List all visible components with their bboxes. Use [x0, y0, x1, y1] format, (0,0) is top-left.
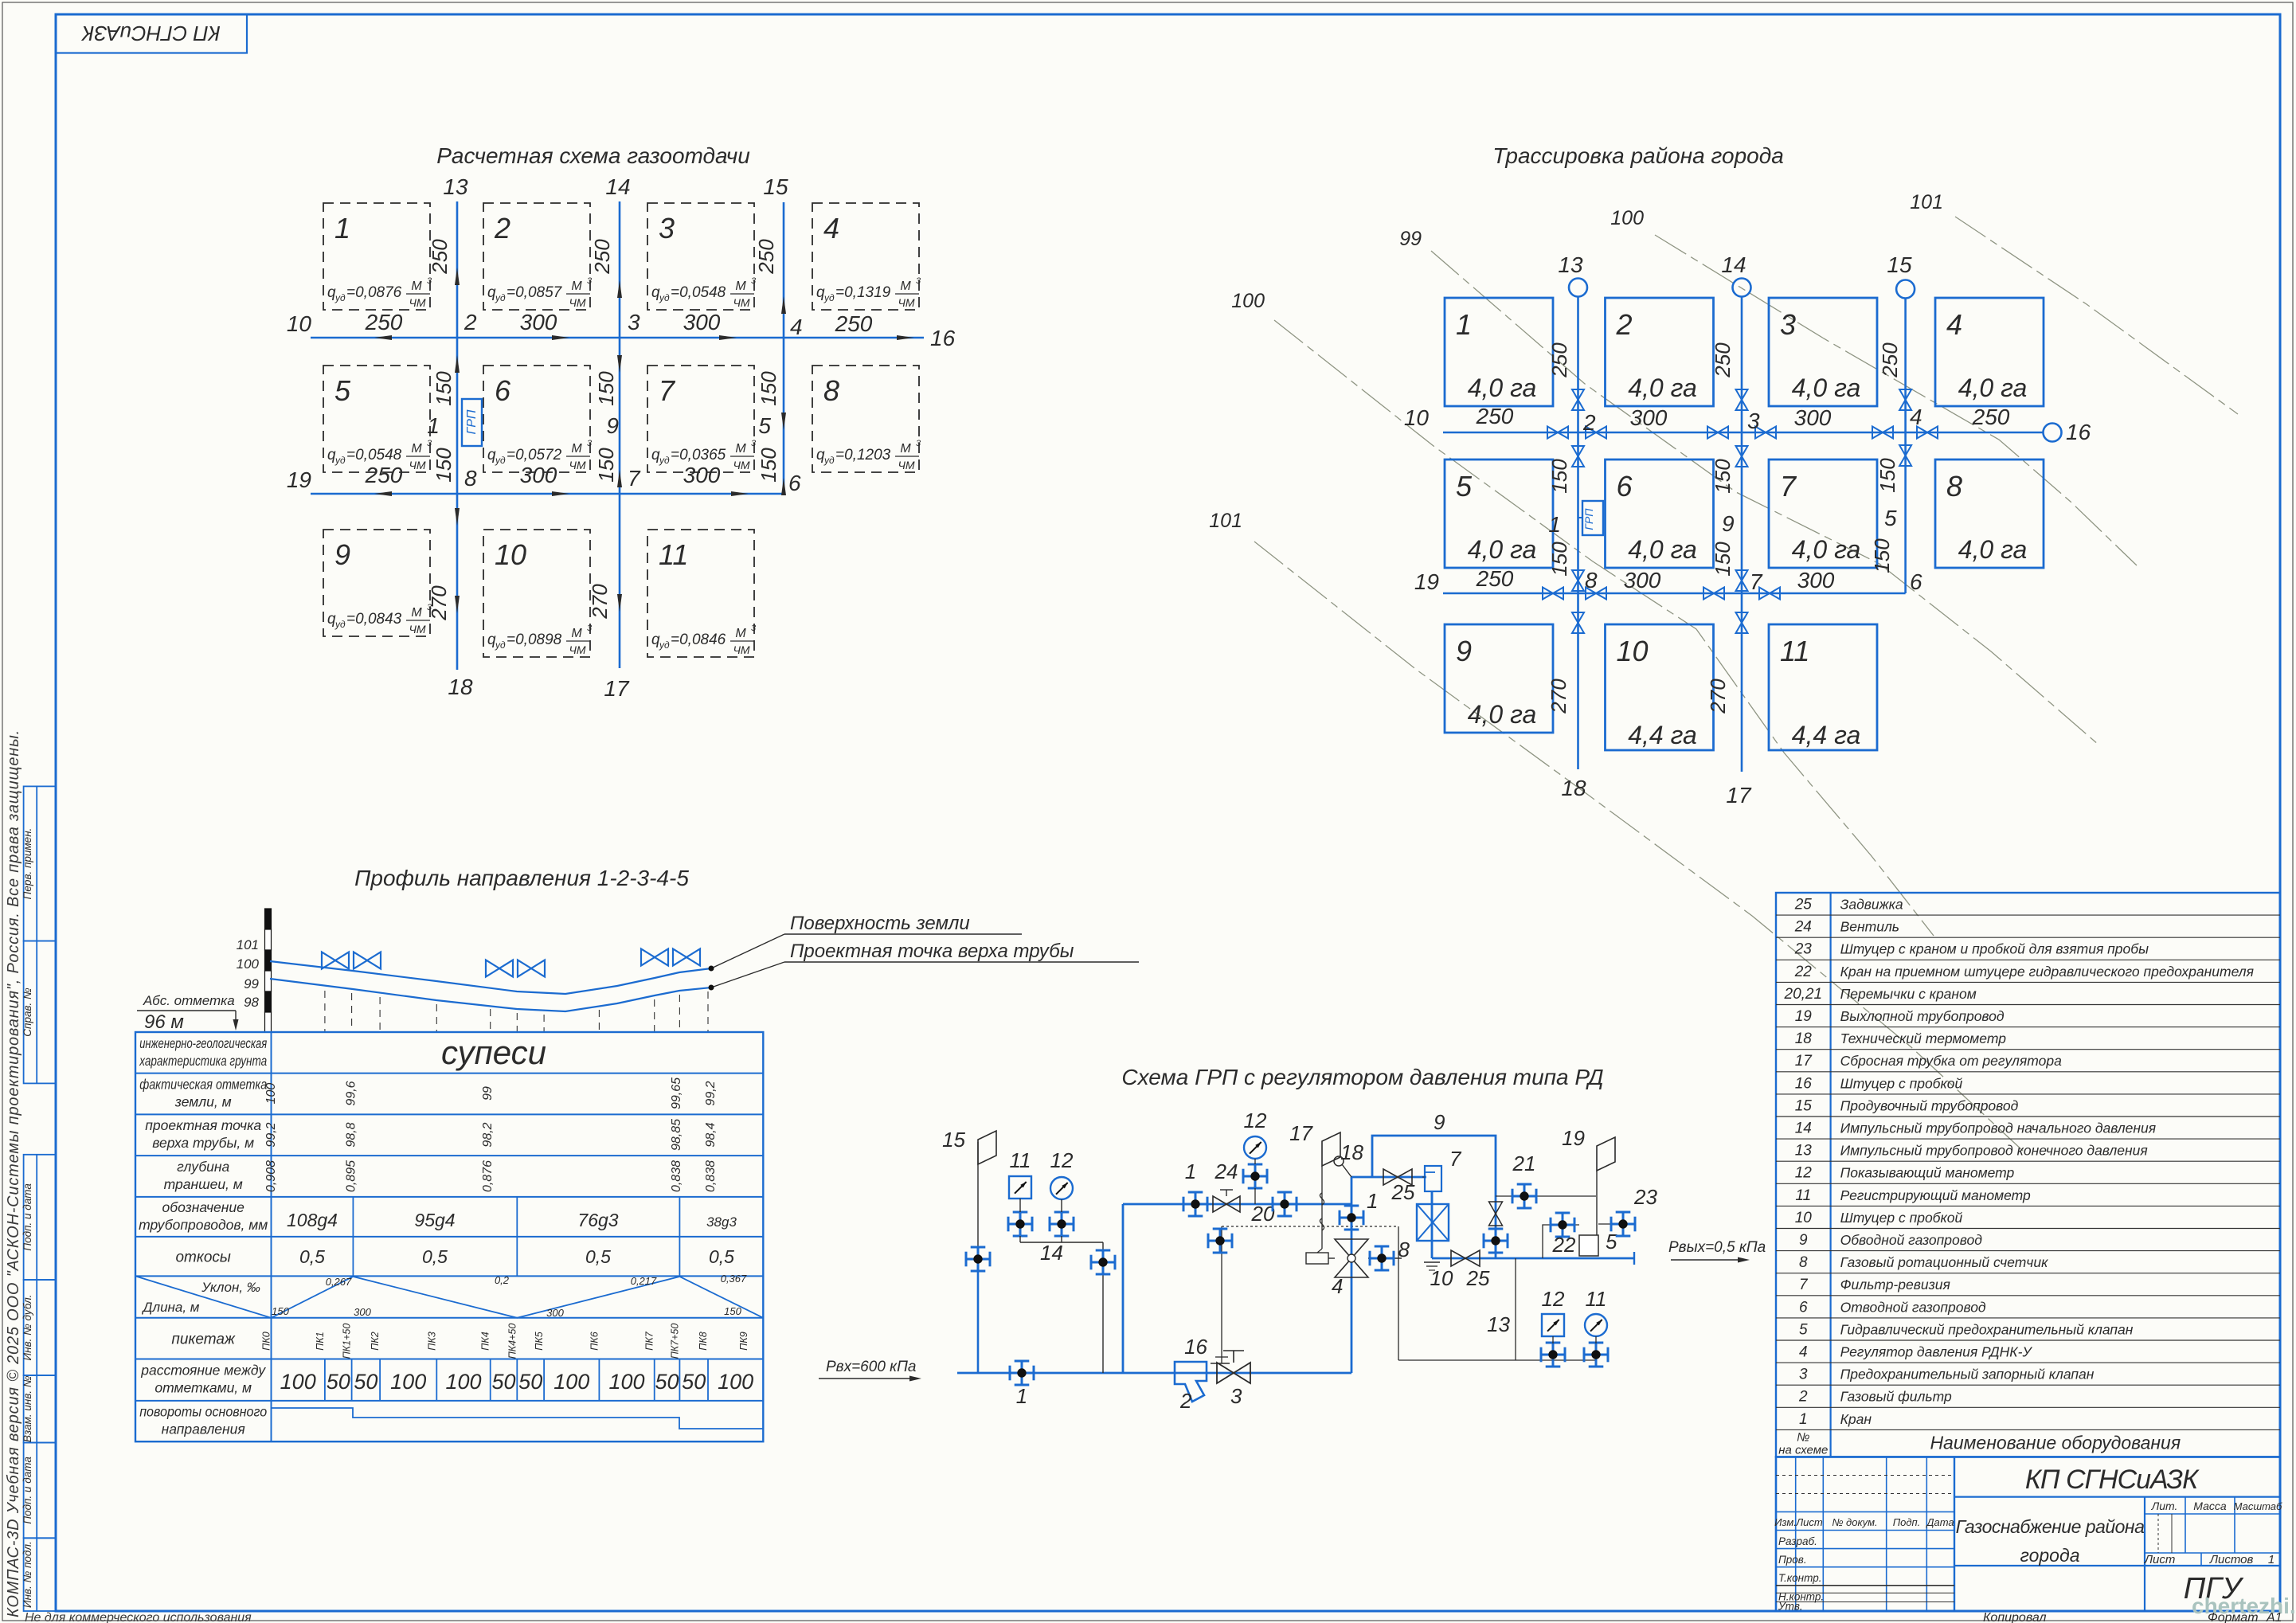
- svg-text:19: 19: [1414, 569, 1439, 594]
- block 8 dashed square: [812, 366, 919, 472]
- svg-text:17: 17: [1795, 1053, 1813, 1070]
- svg-text:8: 8: [823, 374, 839, 407]
- svg-text:Лит.: Лит.: [2151, 1500, 2178, 1512]
- valve bowtie on main: [1586, 588, 1596, 600]
- svg-text:15: 15: [1887, 252, 1912, 277]
- svg-text:50: 50: [682, 1370, 706, 1394]
- svg-text:10: 10: [1404, 405, 1430, 430]
- svg-text:характеристика грунта: характеристика грунта: [139, 1053, 267, 1069]
- block 5 dashed square: [323, 366, 430, 472]
- svg-text:18: 18: [448, 675, 473, 699]
- svg-text:города: города: [2020, 1545, 2080, 1566]
- svg-text:фактическая отметка: фактическая отметка: [139, 1077, 267, 1093]
- svg-text:7: 7: [659, 374, 676, 407]
- svg-text:0,908: 0,908: [264, 1160, 278, 1192]
- svg-text:Дата: Дата: [1925, 1516, 1954, 1528]
- svg-text:6: 6: [1910, 569, 1922, 594]
- svg-text:Трассировка района города: Трассировка района города: [1492, 143, 1784, 168]
- pipe regulator riser: [1351, 1177, 1353, 1373]
- svg-text:98: 98: [244, 995, 259, 1010]
- pipe upper line: [1123, 1203, 1351, 1206]
- valve bowtie on main: [1703, 588, 1714, 600]
- valve bowtie on main: [1872, 427, 1883, 439]
- svg-text:250: 250: [1476, 566, 1514, 591]
- svg-text:17: 17: [1289, 1121, 1313, 1145]
- flow arrows: [374, 335, 392, 340]
- svg-text:98,85: 98,85: [670, 1119, 683, 1151]
- svg-text:ПК5: ПК5: [534, 1332, 545, 1350]
- valve pair 1 on profile: [322, 952, 335, 969]
- wire riser 15-6: [783, 202, 785, 494]
- wire riser 14-17: [619, 201, 621, 668]
- svg-text:14: 14: [1795, 1120, 1812, 1137]
- svg-text:300: 300: [520, 463, 557, 487]
- valve bowtie on riser: [1736, 612, 1748, 623]
- svg-text:99,2: 99,2: [704, 1081, 718, 1105]
- svg-text:20,21: 20,21: [1784, 986, 1823, 1003]
- svg-text:76g3: 76g3: [577, 1210, 618, 1230]
- wire second horizontal 19-8-7-6: [311, 493, 784, 495]
- svg-text:14: 14: [1040, 1241, 1063, 1265]
- svg-text:2: 2: [1179, 1389, 1192, 1413]
- gauge 11 recording manometer: [1009, 1176, 1031, 1199]
- svg-text:0,367: 0,367: [721, 1273, 747, 1285]
- svg-text:=0,0548: =0,0548: [671, 284, 726, 301]
- svg-text:19: 19: [287, 467, 311, 492]
- lit massa masshtab cells: [2145, 1513, 2280, 1515]
- svg-text:100: 100: [553, 1370, 589, 1394]
- svg-text:22: 22: [1794, 964, 1813, 980]
- svg-text:1: 1: [1548, 512, 1561, 537]
- svg-text:6: 6: [495, 374, 511, 407]
- svg-text:уд: уд: [334, 292, 346, 303]
- valve bowtie on riser: [1736, 446, 1748, 456]
- valve right of regulator: [1370, 1257, 1394, 1260]
- svg-text:1: 1: [1185, 1160, 1196, 1183]
- svg-text:0,267: 0,267: [326, 1276, 352, 1288]
- svg-text:11: 11: [1795, 1187, 1811, 1204]
- svg-text:2: 2: [464, 310, 477, 334]
- svg-text:Лист: Лист: [2144, 1553, 2176, 1566]
- hydraulic safety 5: [1579, 1235, 1598, 1256]
- contour line 101 left: [1254, 542, 2023, 1151]
- svg-text:ЧМ: ЧМ: [898, 459, 914, 471]
- valve bowtie on main: [1917, 427, 1927, 439]
- district block 1: [1445, 298, 1553, 406]
- svg-text:13: 13: [1558, 252, 1583, 277]
- valve bowtie on riser: [1736, 570, 1748, 581]
- svg-text:Штуцер с пробкой: Штуцер с пробкой: [1840, 1075, 1963, 1091]
- svg-text:5: 5: [334, 374, 351, 407]
- PSK ventil 25: [1383, 1169, 1398, 1185]
- svg-text:100: 100: [445, 1370, 481, 1394]
- blowdown riser 15: [977, 1271, 980, 1373]
- svg-text:ПК4+50: ПК4+50: [507, 1324, 518, 1359]
- svg-text:3: 3: [659, 212, 675, 244]
- valve bowtie on riser: [1572, 389, 1584, 400]
- svg-text:Профиль направления 1-2-3-4-5: Профиль направления 1-2-3-4-5: [354, 866, 689, 890]
- district block 10: [1606, 624, 1714, 750]
- svg-text:Копировал: Копировал: [1983, 1611, 2047, 1623]
- svg-text:=0,0898: =0,0898: [507, 632, 562, 648]
- valve bowtie on main: [1759, 588, 1770, 600]
- valve 22: [1551, 1224, 1574, 1226]
- svg-text:уд: уд: [495, 639, 506, 651]
- svg-text:101: 101: [237, 937, 259, 952]
- svg-text:5: 5: [1456, 470, 1473, 503]
- svg-text:0,5: 0,5: [709, 1246, 734, 1267]
- margin box Инв. № подл.: [24, 1538, 56, 1611]
- svg-text:18: 18: [1561, 776, 1586, 800]
- svg-text:М: М: [571, 627, 582, 640]
- svg-text:Взам. инв. №: Взам. инв. №: [22, 1375, 33, 1442]
- svg-text:5: 5: [758, 413, 771, 438]
- svg-text:150: 150: [272, 1305, 289, 1317]
- block 10 dashed square: [483, 530, 590, 657]
- svg-text:96 м: 96 м: [144, 1011, 184, 1033]
- svg-text:100: 100: [608, 1370, 644, 1394]
- valve bowtie on main: [1586, 427, 1596, 439]
- svg-text:Уклон, ‰: Уклон, ‰: [201, 1280, 260, 1295]
- svg-text:300: 300: [683, 463, 721, 487]
- svg-text:Гидравлический предохранительн: Гидравлический предохранительный клапан: [1840, 1321, 2134, 1337]
- margin box Подп. и дата: [24, 1155, 56, 1280]
- gauge 11 outlet: [1585, 1314, 1607, 1336]
- svg-text:ЧМ: ЧМ: [409, 296, 425, 309]
- valve bowtie on main: [1543, 588, 1553, 600]
- svg-text:50: 50: [655, 1370, 679, 1394]
- svg-text:250: 250: [754, 239, 778, 275]
- svg-text:12: 12: [1795, 1165, 1813, 1182]
- svg-text:150: 150: [594, 448, 618, 483]
- svg-text:Инв. № подл.: Инв. № подл.: [22, 1541, 33, 1608]
- svg-text:150: 150: [594, 371, 618, 406]
- wire riser 13 with end circle: [1577, 296, 1579, 769]
- svg-text:Штуцер с пробкой: Штуцер с пробкой: [1840, 1210, 1963, 1226]
- block 2 dashed square: [483, 203, 590, 310]
- svg-text:4,0 га: 4,0 га: [1628, 373, 1697, 402]
- jumper 22: [1543, 1225, 1579, 1258]
- district block 11: [1769, 624, 1877, 750]
- svg-text:150: 150: [757, 448, 780, 483]
- svg-text:11: 11: [1010, 1148, 1031, 1172]
- svg-text:Т.контр.: Т.контр.: [1778, 1572, 1821, 1584]
- PSK 7 device: [1425, 1166, 1441, 1191]
- svg-text:16: 16: [1795, 1075, 1813, 1092]
- svg-text:100: 100: [1231, 290, 1265, 312]
- svg-text:уд: уд: [334, 619, 346, 630]
- svg-text:14: 14: [1721, 252, 1746, 277]
- svg-text:0,5: 0,5: [585, 1246, 611, 1267]
- margin box Перв. примен.: [24, 786, 56, 941]
- pipe PSK line: [1351, 1176, 1426, 1179]
- svg-text:Газовый фильтр: Газовый фильтр: [1840, 1389, 1952, 1405]
- svg-text:250: 250: [365, 463, 403, 487]
- jumper 21 line: [1496, 1195, 1596, 1197]
- svg-text:Газоснабжение района: Газоснабжение района: [1956, 1516, 2145, 1537]
- svg-text:откосы: откосы: [175, 1250, 230, 1266]
- svg-text:98,8: 98,8: [345, 1122, 358, 1147]
- svg-text:300: 300: [546, 1307, 564, 1319]
- svg-text:150: 150: [432, 371, 456, 406]
- svg-text:Отводной газопровод: Отводной газопровод: [1840, 1299, 1986, 1315]
- svg-text:13: 13: [1795, 1143, 1813, 1160]
- thermometer 18: [1334, 1156, 1344, 1166]
- svg-text:8: 8: [1799, 1254, 1808, 1271]
- svg-text:300: 300: [683, 310, 721, 334]
- svg-text:Абс. отметка: Абс. отметка: [143, 993, 235, 1008]
- svg-text:=0,0876: =0,0876: [346, 284, 402, 301]
- svg-text:ГРП: ГРП: [1582, 508, 1595, 530]
- district block 2: [1606, 298, 1714, 406]
- svg-text:10: 10: [495, 538, 526, 571]
- svg-text:Рвх=600 кПа: Рвх=600 кПа: [826, 1359, 916, 1375]
- svg-text:Показывающий манометр: Показывающий манометр: [1840, 1165, 2015, 1181]
- valve bowtie on riser: [1572, 446, 1584, 456]
- svg-text:0,2: 0,2: [495, 1274, 510, 1286]
- district block 6: [1606, 460, 1714, 568]
- svg-text:Подп. и дата: Подп. и дата: [22, 1457, 33, 1524]
- svg-text:Изм.: Изм.: [1774, 1516, 1797, 1528]
- svg-text:4: 4: [1910, 405, 1922, 429]
- svg-text:ПК7: ПК7: [644, 1331, 655, 1350]
- svg-text:108g4: 108g4: [287, 1210, 338, 1230]
- svg-text:Длина, м: Длина, м: [142, 1300, 200, 1315]
- svg-text:250: 250: [590, 239, 614, 275]
- svg-text:25: 25: [1391, 1180, 1415, 1204]
- svg-text:18: 18: [1795, 1031, 1813, 1047]
- valve bowtie on riser: [1899, 389, 1911, 400]
- svg-text:ПК2: ПК2: [370, 1332, 381, 1350]
- svg-text:уд: уд: [823, 455, 835, 466]
- svg-text:повороты основного: повороты основного: [139, 1404, 267, 1420]
- svg-text:4,0 га: 4,0 га: [1468, 700, 1537, 729]
- flag 19 exhaust: [1596, 1171, 1598, 1196]
- svg-text:270: 270: [1706, 679, 1730, 714]
- svg-text:99: 99: [481, 1086, 495, 1101]
- svg-text:100: 100: [718, 1370, 753, 1394]
- svg-text:Сбросная трубка от регулятора: Сбросная трубка от регулятора: [1840, 1053, 2063, 1069]
- svg-text:Подп. и дата: Подп. и дата: [22, 1183, 33, 1251]
- pipe outlet line: [1432, 1257, 1634, 1260]
- svg-text:1: 1: [2268, 1553, 2274, 1566]
- svg-text:ЧМ: ЧМ: [569, 643, 585, 656]
- valve on line 16: [1208, 1240, 1232, 1242]
- list listov row: [2200, 1553, 2202, 1566]
- svg-text:ПК0: ПК0: [261, 1332, 272, 1350]
- svg-text:3: 3: [628, 310, 640, 334]
- svg-text:3: 3: [587, 439, 593, 448]
- svg-text:Лист: Лист: [1795, 1516, 1823, 1528]
- ground surface line: [270, 961, 711, 994]
- svg-text:ПК7+50: ПК7+50: [669, 1324, 680, 1359]
- svg-text:98,2: 98,2: [481, 1122, 495, 1147]
- svg-text:0,895: 0,895: [345, 1160, 358, 1192]
- svg-text:19: 19: [1795, 1008, 1813, 1025]
- valve 1 on upper line: [1183, 1203, 1207, 1206]
- margin box Инв. № дубл.: [24, 1280, 56, 1375]
- svg-text:0,5: 0,5: [299, 1246, 325, 1267]
- svg-text:9: 9: [606, 413, 619, 438]
- valve on impulse drop: [1091, 1261, 1115, 1264]
- margin box Взам. инв. №: [24, 1375, 56, 1443]
- svg-text:=0,0548: =0,0548: [346, 447, 402, 463]
- svg-text:50: 50: [518, 1370, 542, 1394]
- svg-text:21: 21: [1512, 1152, 1536, 1175]
- svg-text:Инв. № дубл.: Инв. № дубл.: [22, 1294, 33, 1360]
- svg-text:3: 3: [427, 276, 432, 286]
- valve pair 3 on profile: [641, 949, 655, 966]
- district block 4: [1935, 298, 2044, 406]
- svg-text:5: 5: [1884, 506, 1897, 530]
- profile table grid: [135, 1032, 763, 1441]
- svg-text:8: 8: [1946, 470, 1962, 503]
- block 9 dashed square: [323, 530, 430, 636]
- pipe counter drop: [1431, 1191, 1434, 1258]
- svg-text:0,5: 0,5: [422, 1246, 448, 1267]
- svg-text:25: 25: [1466, 1266, 1490, 1290]
- svg-text:М: М: [411, 442, 422, 456]
- svg-text:Перв. примен.: Перв. примен.: [22, 828, 33, 900]
- svg-text:12: 12: [1244, 1109, 1267, 1132]
- slope diagram: [272, 1277, 764, 1318]
- wire riser 15 with end circle: [1904, 298, 1907, 593]
- svg-text:9: 9: [1722, 511, 1735, 536]
- svg-text:15: 15: [1795, 1097, 1813, 1114]
- svg-text:земли, м: земли, м: [174, 1094, 232, 1110]
- svg-text:100: 100: [264, 1083, 278, 1105]
- contour line 101 top: [1955, 217, 2238, 414]
- picket dashed verticals: [324, 991, 326, 1032]
- svg-text:Обводной газопровод: Обводной газопровод: [1840, 1232, 1983, 1248]
- regulator 4 RDNK: [1335, 1239, 1368, 1258]
- svg-text:20: 20: [1251, 1202, 1275, 1226]
- svg-text:11: 11: [1586, 1287, 1607, 1311]
- svg-text:1: 1: [1799, 1411, 1808, 1428]
- svg-text:270: 270: [588, 584, 612, 620]
- district block 7: [1769, 460, 1877, 568]
- svg-text:ЧМ: ЧМ: [569, 296, 585, 309]
- svg-text:12: 12: [1542, 1287, 1565, 1311]
- svg-text:Поверхность земли: Поверхность земли: [790, 913, 970, 934]
- leveling rod: [265, 909, 272, 929]
- svg-text:4,0 га: 4,0 га: [1468, 535, 1537, 564]
- equipment table frame: [1776, 893, 2280, 1457]
- turns polyline: [272, 1408, 764, 1429]
- valve on bypass down: [1484, 1240, 1508, 1242]
- svg-text:ЧМ: ЧМ: [733, 296, 749, 309]
- svg-text:99: 99: [1399, 228, 1422, 250]
- svg-text:4,0 га: 4,0 га: [1792, 373, 1861, 402]
- svg-text:ЧМ: ЧМ: [569, 459, 585, 471]
- GRP box scheme B: [1582, 501, 1603, 535]
- svg-text:300: 300: [1630, 405, 1668, 430]
- svg-text:Формат: Формат: [2208, 1611, 2259, 1623]
- svg-text:уд: уд: [495, 292, 506, 303]
- document name: [1954, 1565, 2280, 1566]
- rotary counter 8: [1417, 1204, 1449, 1241]
- zadvizhka 25 on outlet: [1451, 1250, 1465, 1266]
- svg-text:уд: уд: [495, 455, 506, 466]
- pipe top line: [270, 979, 711, 1011]
- svg-text:9: 9: [334, 538, 350, 571]
- svg-text:22: 22: [1552, 1233, 1576, 1257]
- svg-text:99: 99: [244, 976, 259, 991]
- svg-text:101: 101: [1209, 510, 1242, 532]
- svg-text:Разраб.: Разраб.: [1778, 1535, 1817, 1547]
- svg-text:150: 150: [1547, 542, 1571, 577]
- svg-text:0,838: 0,838: [704, 1160, 718, 1192]
- svg-text:8: 8: [464, 466, 477, 491]
- svg-text:Подп.: Подп.: [1893, 1516, 1921, 1528]
- svg-text:расстояние между: расстояние между: [140, 1363, 266, 1379]
- svg-text:ЧМ: ЧМ: [409, 623, 425, 636]
- title block frame: [1776, 1457, 2280, 1612]
- svg-text:супеси: супеси: [441, 1034, 546, 1071]
- svg-text:3: 3: [587, 624, 593, 633]
- svg-text:99,2: 99,2: [264, 1122, 278, 1147]
- valve pair 2 on profile: [486, 960, 499, 977]
- svg-text:М: М: [900, 442, 911, 456]
- svg-text:Расчетная схема газоотдачи: Расчетная схема газоотдачи: [436, 143, 750, 168]
- gauge 12 showing manometer: [1050, 1177, 1073, 1199]
- svg-text:уд: уд: [823, 292, 835, 303]
- svg-text:7: 7: [1780, 470, 1797, 503]
- svg-text:5: 5: [1606, 1230, 1617, 1253]
- svg-text:М: М: [411, 606, 422, 620]
- valve bowtie on riser: [1899, 445, 1911, 456]
- svg-text:1: 1: [427, 413, 440, 438]
- svg-text:250: 250: [365, 310, 403, 334]
- GRP box scheme A: [462, 399, 482, 446]
- corner stamp box KP SGNSiAZK: [56, 14, 247, 53]
- svg-text:ПК9: ПК9: [738, 1332, 749, 1350]
- svg-text:верха трубы, м: верха трубы, м: [152, 1135, 254, 1151]
- wire riser 14 with end circle: [1741, 296, 1743, 772]
- block 6 dashed square: [483, 366, 590, 472]
- svg-text:Технический термометр: Технический термометр: [1840, 1031, 2007, 1046]
- svg-text:Справ. №: Справ. №: [22, 987, 33, 1037]
- svg-text:уд: уд: [659, 455, 670, 466]
- svg-text:=0,0572: =0,0572: [507, 447, 562, 463]
- svg-text:50: 50: [491, 1370, 515, 1394]
- svg-text:250: 250: [1711, 342, 1735, 378]
- svg-text:Импульсный трубопровод конечно: Импульсный трубопровод конечного давлени…: [1840, 1143, 2148, 1159]
- svg-text:3: 3: [587, 276, 593, 286]
- svg-text:Листов: Листов: [2209, 1553, 2254, 1566]
- svg-text:уд: уд: [659, 639, 670, 651]
- svg-text:11: 11: [1780, 635, 1809, 667]
- svg-text:7: 7: [1750, 569, 1763, 594]
- valve 23: [1611, 1223, 1635, 1226]
- svg-text:150: 150: [1876, 458, 1899, 493]
- district block 5: [1445, 460, 1553, 568]
- lower impulse line: [1398, 1359, 1596, 1361]
- svg-text:150: 150: [432, 448, 456, 483]
- svg-text:обозначение: обозначение: [162, 1199, 245, 1215]
- block 1 dashed square: [323, 203, 430, 310]
- impulse line 14: [1020, 1242, 1103, 1243]
- svg-text:6: 6: [1617, 470, 1633, 503]
- svg-text:270: 270: [1547, 679, 1570, 714]
- svg-text:проектная точка: проектная точка: [145, 1117, 261, 1133]
- svg-text:Не для коммерческого использов: Не для коммерческого использования: [25, 1611, 252, 1623]
- svg-text:№: №: [1797, 1430, 1809, 1444]
- svg-text:25: 25: [1794, 897, 1813, 913]
- contour line 99: [1431, 251, 2098, 745]
- svg-text:4,0 га: 4,0 га: [1628, 535, 1697, 564]
- svg-text:99,65: 99,65: [670, 1077, 683, 1109]
